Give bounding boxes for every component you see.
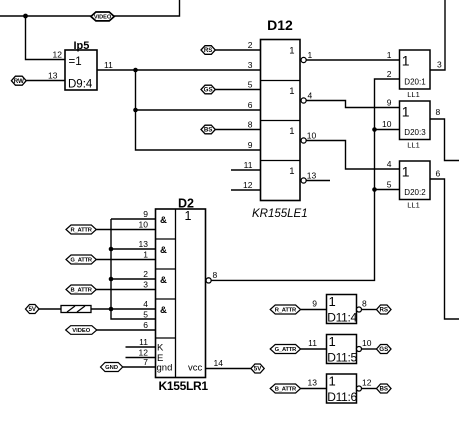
wire: VIDEO net, top horizontal and riser (0, 0, 180, 16)
net label G_ATTR (270, 345, 300, 354)
svg-text:4: 4 (308, 91, 313, 101)
wire: B_ATTR to D11:6 pin 13 (301, 388, 327, 390)
svg-text:4: 4 (143, 299, 148, 309)
wire: VIDEO to D2 pin 6 (97, 329, 156, 331)
resistor (crossed box) between 5V and D2 pin 4 (61, 306, 91, 313)
pin number labels of D2 inputs (139, 209, 149, 367)
svg-text:11: 11 (308, 338, 317, 348)
svg-text:D9:4: D9:4 (68, 79, 93, 91)
pin number labels of D11:6: 13, 12 (308, 378, 372, 388)
pin number labels of D12 inputs: 2,3,5,6,8,9,11,12 (243, 40, 253, 190)
wire: D11:6 out to BS (362, 388, 377, 390)
svg-text:6: 6 (436, 169, 441, 179)
svg-text:BS: BS (204, 127, 213, 134)
wire: D20:1 out 3 up to top edge (430, 0, 445, 70)
wire: bus to D20:2 pin 5 (375, 189, 400, 191)
svg-text:8: 8 (248, 120, 253, 130)
svg-text:Ip5: Ip5 (74, 40, 90, 52)
svg-text:VIDEO: VIDEO (94, 15, 112, 21)
svg-text:2: 2 (387, 69, 392, 79)
net label GS (output) (377, 345, 392, 354)
wire: node down and to D12 pin 9 (136, 110, 261, 150)
wire: stub into D2 pin 12 (126, 357, 156, 359)
net label RS (output) (377, 305, 392, 314)
svg-text:&: & (160, 275, 167, 286)
svg-text:11: 11 (244, 160, 253, 170)
wire: D9:4 output 11 to D12 pin 3 (97, 69, 261, 71)
svg-text:1: 1 (329, 334, 336, 349)
inverter gate D11:6 (327, 374, 358, 405)
buffer gate D20:1 (LL1) (400, 50, 431, 99)
svg-text:VIDEO: VIDEO (72, 328, 91, 334)
output bubble D2 pin 8 (206, 278, 211, 283)
pin number labels of D20:1: 1,2,3 (387, 50, 442, 79)
net label R_ATTR (270, 305, 300, 314)
wire: stub into D2 pin 11 (126, 346, 156, 348)
buffer gate D20:2 (LL1) (400, 161, 431, 210)
wire: D2 out 8 bus up to D20:1 pin 2 (211, 79, 399, 280)
wire: bus to D2 pin 13 (111, 248, 156, 250)
svg-text:D20:3: D20:3 (404, 128, 426, 137)
nor-gate block D12 (KR155LE1) (261, 17, 301, 201)
wire: R_ATTR to D2 pin 10 (96, 229, 155, 231)
net label BS (input) (201, 125, 215, 134)
wire: GND to D2 pin 7 (123, 366, 156, 368)
svg-text:1: 1 (402, 104, 410, 120)
wire: branch down to D9:4 pin 12 (26, 16, 66, 60)
svg-text:3: 3 (248, 60, 253, 70)
inverter gate D11:5 (327, 334, 358, 365)
wire: stub into D12 pin 12 (231, 189, 261, 191)
svg-text:1: 1 (329, 294, 336, 309)
wire: stub on D12 out 13 (306, 180, 330, 182)
svg-text:11: 11 (104, 60, 113, 70)
svg-text:1: 1 (289, 126, 294, 137)
svg-text:D11:5: D11:5 (327, 351, 357, 365)
output bubble D12 pin 10 (301, 138, 306, 143)
svg-text:13: 13 (48, 71, 58, 81)
svg-text:9: 9 (387, 98, 392, 108)
pin number labels of D11:5: 11, 10 (308, 338, 372, 348)
svg-text:12: 12 (243, 180, 253, 190)
svg-text:9: 9 (248, 140, 253, 150)
output bubble D12 pin 1 (301, 57, 306, 62)
wire: D12 out 10 to D20:2 pin 4 (306, 141, 399, 170)
junction: bus to D2 pin 13 (109, 247, 114, 252)
wire: common bus down left side of D2 (pins 9,13,2,4,5) (111, 219, 156, 319)
net label VIDEO (into D2 pin 6) (66, 326, 97, 335)
wire: RW to D9:4 pin 13 (26, 80, 65, 82)
wire: bus to D2 pin 2 (111, 278, 156, 280)
svg-text:D11:6: D11:6 (327, 390, 357, 404)
svg-text:13: 13 (307, 171, 317, 181)
output bubble D11:5 pin 10 (357, 347, 362, 352)
pin number labels of D12 outputs: 1,4,10,13 (307, 50, 317, 181)
svg-text:LL1: LL1 (407, 90, 420, 99)
svg-text:D20:1: D20:1 (404, 77, 426, 86)
pin number labels of D20:3: 9,10,8 (382, 98, 440, 130)
svg-text:RS: RS (379, 307, 388, 314)
junction: VIDEO net branch to D9:4 (23, 14, 28, 19)
svg-text:1: 1 (289, 166, 294, 177)
xor gate Ip5 / D9:4 (65, 40, 97, 91)
wire: G_ATTR to D2 pin 1 (96, 259, 155, 261)
wire: bus to D20:3 pin 10 (375, 129, 400, 131)
svg-text:R_ATTR: R_ATTR (275, 308, 297, 314)
net label RS (input) (201, 46, 215, 55)
buffer gate D20:3 (LL1) (400, 101, 431, 150)
wire: D12 out 1 to D20:1 pin 1 (306, 59, 399, 61)
svg-text:GS: GS (204, 87, 213, 94)
svg-text:&: & (160, 245, 167, 256)
svg-text:2: 2 (248, 40, 253, 50)
svg-text:LL1: LL1 (407, 141, 420, 150)
svg-text:G_ATTR: G_ATTR (70, 258, 93, 264)
junction: resistor net joins bus (109, 307, 114, 312)
pin number labels of D11:4: 9, 8 (312, 299, 367, 309)
svg-text:&: & (160, 305, 167, 316)
wire: D12 out 4 to D20:3 pin 9 (306, 101, 399, 108)
net label GS (input) (201, 85, 215, 94)
wire: GS to D12 pin 5 (215, 89, 260, 91)
output bubble D11:4 pin 8 (357, 307, 362, 312)
svg-text:1: 1 (289, 46, 294, 57)
svg-text:1: 1 (329, 374, 336, 389)
svg-text:13: 13 (308, 378, 318, 388)
svg-text:8: 8 (362, 299, 367, 309)
svg-text:5V: 5V (28, 306, 36, 313)
wire: branch down from node (135, 70, 137, 110)
svg-text:14: 14 (214, 358, 224, 368)
svg-text:12: 12 (362, 378, 372, 388)
svg-text:D11:4: D11:4 (327, 311, 357, 325)
output bubble D12 pin 4 (301, 98, 306, 103)
wire: B_ATTR to D2 pin 3 (96, 289, 155, 291)
net label VIDEO (top) (91, 12, 114, 21)
net label 5V (pull-up source) (26, 305, 40, 314)
svg-text:gnd: gnd (157, 363, 173, 374)
svg-text:8: 8 (436, 107, 441, 117)
svg-text:vcc: vcc (188, 363, 203, 374)
net label BS (output) (377, 384, 392, 393)
svg-text:5: 5 (387, 180, 392, 190)
svg-text:K: K (157, 343, 164, 354)
svg-text:2: 2 (143, 269, 148, 279)
svg-text:1: 1 (185, 209, 192, 223)
svg-text:6: 6 (248, 100, 253, 110)
svg-text:&: & (160, 215, 167, 226)
svg-text:6: 6 (143, 320, 148, 330)
and-or block D2 (K155LR1) (156, 197, 206, 378)
wire: R_ATTR to D11:4 pin 9 (301, 309, 327, 311)
svg-text:B_ATTR: B_ATTR (275, 387, 297, 393)
svg-text:5: 5 (248, 80, 253, 90)
wire: D20:2 out 6 down to right edge (430, 179, 459, 319)
wire: resistor to D2 pin 4 (91, 308, 156, 310)
junction: node feeding D12 pin 6 (133, 108, 138, 113)
net label G_ATTR (66, 255, 96, 264)
svg-text:13: 13 (139, 239, 149, 249)
output bubble D12 pin 13 (301, 178, 306, 183)
output bubble D11:6 pin 12 (357, 386, 362, 391)
svg-text:RS: RS (204, 47, 213, 54)
wire: 5V to resistor (39, 308, 61, 310)
svg-text:12: 12 (139, 348, 149, 358)
svg-text:4: 4 (387, 159, 392, 169)
wire: D2 pin 14 (vcc) to 5V (206, 368, 251, 370)
inverter gate D11:4 (327, 294, 358, 325)
svg-text:10: 10 (362, 338, 372, 348)
svg-text:K155LR1: K155LR1 (159, 379, 209, 393)
wire: G_ATTR to D11:5 pin 11 (301, 348, 327, 350)
svg-text:9: 9 (312, 299, 317, 309)
net label RW (11, 76, 26, 85)
svg-text:D20:2: D20:2 (404, 188, 426, 197)
svg-text:10: 10 (382, 119, 392, 129)
svg-text:1: 1 (402, 53, 410, 69)
pin number labels of D20:2: 4,5,6 (387, 159, 441, 190)
wire: stub into D12 pin 11 (231, 169, 261, 171)
svg-text:9: 9 (143, 209, 148, 219)
wire: bus to D2 pin 9 (111, 218, 156, 220)
svg-text:1: 1 (308, 50, 313, 60)
svg-text:12: 12 (53, 50, 63, 60)
wire: RS to D12 pin 2 (215, 49, 260, 51)
svg-text:1: 1 (289, 86, 294, 97)
svg-text:10: 10 (307, 131, 317, 141)
junction: node on output 11 (133, 68, 138, 73)
svg-text:G_ATTR: G_ATTR (275, 347, 298, 353)
svg-text:3: 3 (143, 280, 148, 290)
wire: D20:3 out 8 to right edge (430, 119, 459, 161)
wire: BS to D12 pin 8 (215, 129, 260, 131)
net label GND (101, 363, 123, 372)
svg-text:1: 1 (143, 250, 148, 260)
svg-text:1: 1 (387, 50, 392, 60)
svg-text:D12: D12 (267, 17, 293, 33)
svg-text:5: 5 (143, 310, 148, 320)
svg-text:8: 8 (213, 270, 218, 280)
svg-text:B_ATTR: B_ATTR (71, 288, 93, 294)
net label B_ATTR (270, 384, 300, 393)
svg-text:11: 11 (139, 337, 148, 347)
junction: bus to D2 pin 2 (109, 277, 114, 282)
pin number labels of D9:4: 12, 13, 11 (48, 50, 113, 81)
svg-text:LL1: LL1 (407, 201, 420, 210)
net label R_ATTR (66, 225, 96, 234)
svg-text:1: 1 (402, 164, 410, 180)
wire: D11:4 out to RS (362, 309, 377, 311)
svg-text:=1: =1 (69, 56, 82, 68)
svg-text:RW: RW (14, 78, 24, 85)
junction: bus to D20:2 pin 5 (372, 187, 377, 192)
svg-text:GS: GS (379, 346, 388, 353)
wire: node to D12 pin 6 (136, 109, 261, 111)
svg-text:GND: GND (105, 365, 118, 371)
svg-text:KR155LE1: KR155LE1 (252, 208, 308, 220)
net label B_ATTR (66, 285, 96, 294)
svg-text:R_ATTR: R_ATTR (71, 228, 93, 234)
svg-text:BS: BS (379, 386, 388, 393)
wire: D11:5 out to GS (362, 348, 377, 350)
svg-text:10: 10 (139, 220, 149, 230)
junction: bus to D20:3 pin 10 (372, 127, 377, 132)
svg-text:5V: 5V (254, 366, 262, 373)
svg-text:7: 7 (143, 357, 148, 367)
svg-text:3: 3 (437, 60, 442, 70)
net label 5V (vcc) (251, 364, 264, 373)
